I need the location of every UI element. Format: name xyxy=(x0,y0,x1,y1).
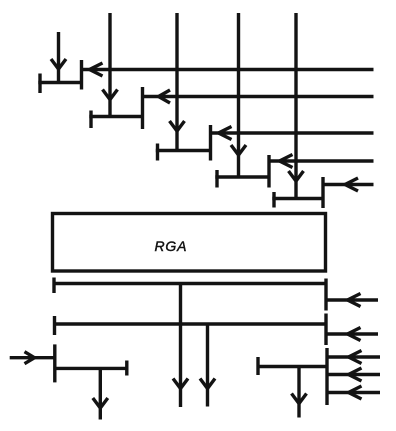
wire output line D2 xyxy=(55,316,327,335)
wire row line W1 xyxy=(82,63,374,76)
wire input arrow left xyxy=(10,352,55,364)
wire input arrow row 2 xyxy=(326,328,378,341)
wire input arrow row 1 xyxy=(326,294,378,307)
wire row line W4 xyxy=(269,155,374,168)
wire row line W2 xyxy=(143,90,374,103)
transistor Q2 xyxy=(89,87,142,129)
wire row line W3 xyxy=(211,127,374,140)
wire column line B1 xyxy=(103,13,118,117)
transistor Q6 xyxy=(55,344,127,382)
wire column line B4 xyxy=(289,13,304,199)
wire output arrow Q6 xyxy=(93,368,108,419)
transistor Q4 xyxy=(215,155,269,188)
svg-text:RGA: RGA xyxy=(155,238,188,254)
wire output line D1 xyxy=(54,278,326,294)
wire input arrow row 5 xyxy=(327,386,380,399)
label RGA xyxy=(155,238,188,254)
wire column line B3 xyxy=(231,13,246,177)
transistor Q5 xyxy=(272,177,323,208)
wire column out B xyxy=(200,324,215,407)
wire bus stub S1 xyxy=(324,279,327,311)
wire input arrow row 4 xyxy=(327,368,380,381)
wire input arrow row 3 xyxy=(327,351,380,364)
transistor Q1 xyxy=(38,60,81,93)
block RGA U1 xyxy=(53,214,326,272)
wire column out A xyxy=(173,284,188,408)
wire row line W5 xyxy=(323,178,374,191)
wire column line B2 xyxy=(170,13,185,151)
transistor Q7 xyxy=(258,348,327,405)
wire Q1 input column xyxy=(51,32,66,83)
wire output arrow Q7 xyxy=(292,367,307,418)
transistor Q3 xyxy=(156,125,211,161)
wire bus stub S2 xyxy=(324,314,327,346)
